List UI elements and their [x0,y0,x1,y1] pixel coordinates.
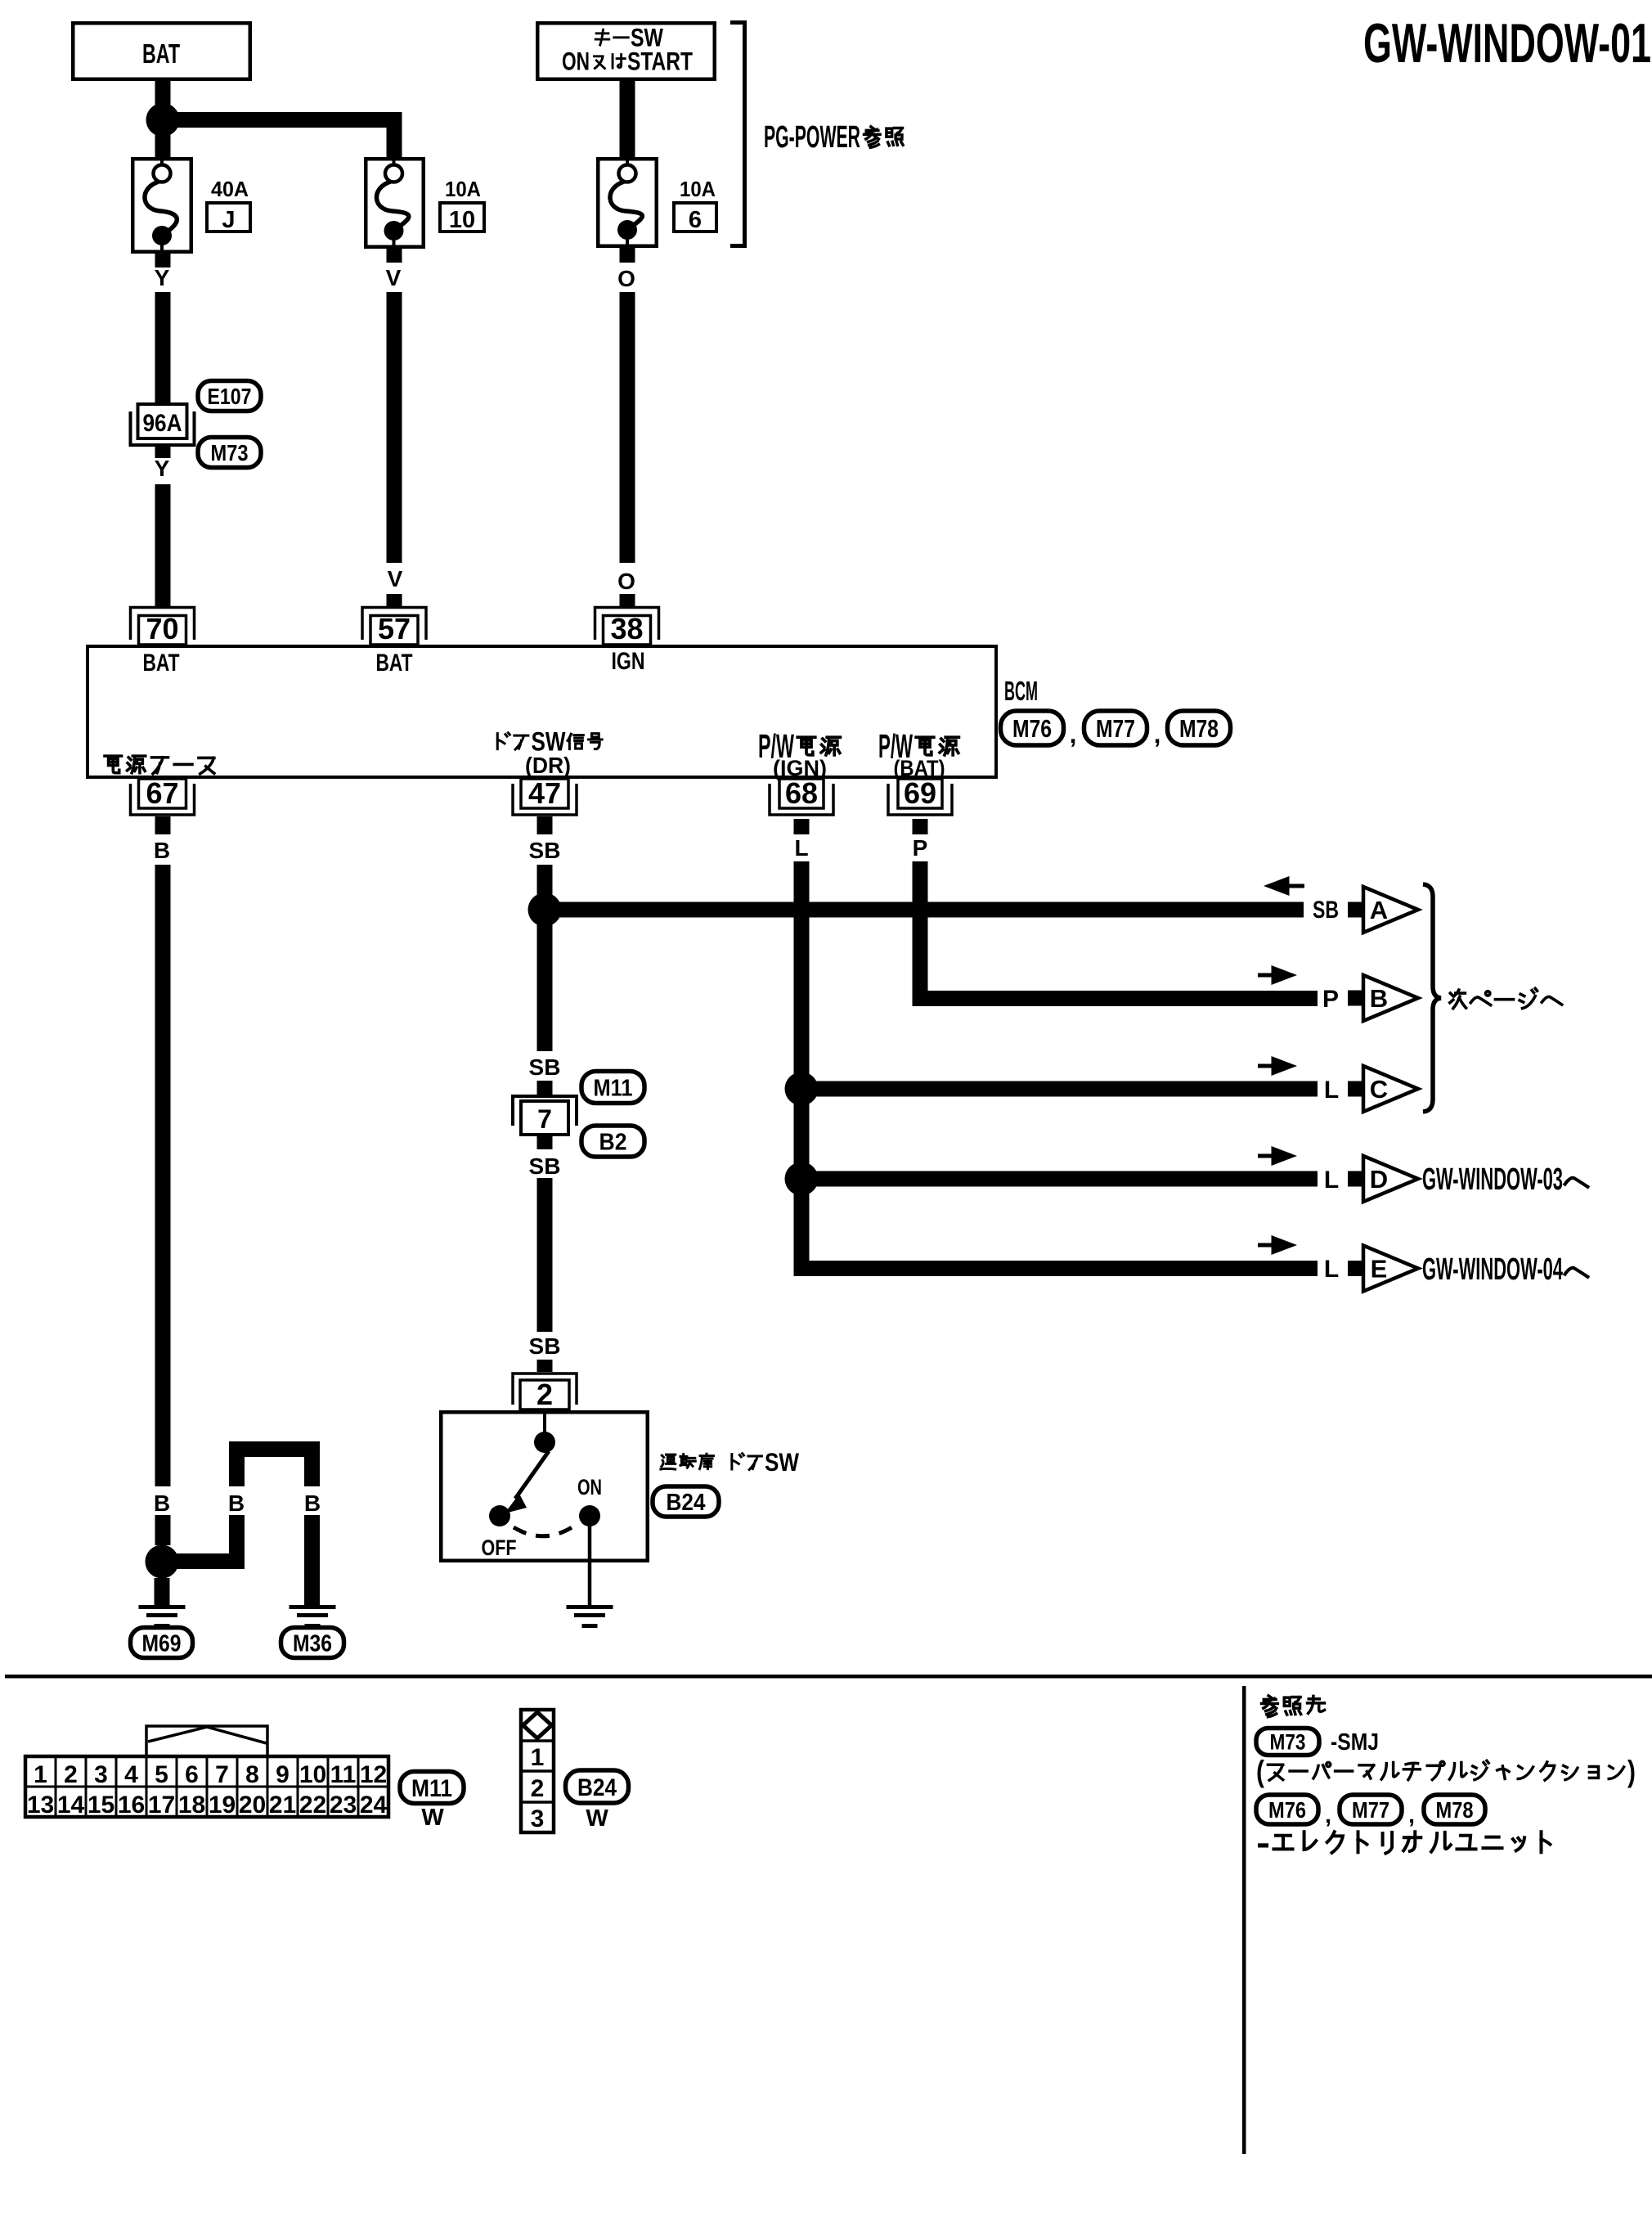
svg-text:2: 2 [64,1761,78,1788]
terminal 67 [131,784,195,815]
door switch box B24 [441,1412,648,1561]
svg-text:21: 21 [269,1792,296,1819]
switch arm arrow [515,1451,549,1499]
svg-text:13: 13 [27,1792,54,1819]
svg-text:10A: 10A [445,177,481,201]
svg-text:B: B [154,838,170,863]
svg-text:(DR): (DR) [525,753,571,778]
terminal 69 [888,784,952,815]
direction arrow row B [1258,973,1274,978]
svg-text:19: 19 [209,1792,236,1819]
terminal 70 [131,608,195,641]
wire Y SMJ to BCM pin 70 [155,484,171,607]
svg-text:Y: Y [155,265,170,290]
svg-text:15: 15 [88,1792,114,1819]
BCM box [88,646,996,777]
svg-text:M69: M69 [142,1630,182,1657]
direction arrow row A [1288,884,1304,888]
brace next page group [1423,884,1441,1112]
svg-text:GW-WINDOW-01: GW-WINDOW-01 [1363,12,1651,74]
svg-text:3: 3 [531,1805,545,1832]
ground M69 [139,1605,186,1609]
terminal 2 door switch [513,1374,577,1405]
terminal 38 [595,608,659,641]
wire L corner to flag E [794,1261,1318,1276]
svg-text:7: 7 [537,1104,552,1134]
contact OFF [489,1505,510,1526]
junction node SB [528,893,562,927]
svg-text:): ) [1627,1754,1636,1788]
svg-text:10: 10 [299,1761,326,1788]
svg-text:SW: SW [765,1447,800,1477]
svg-text:16: 16 [118,1792,145,1819]
svg-text:E: E [1371,1255,1388,1284]
svg-text:-: - [1256,1823,1270,1863]
svg-text:B: B [304,1490,321,1516]
svg-text:6: 6 [689,207,702,233]
wire O fuse 6 to BCM pin 38 [620,248,635,263]
svg-text:-SMJ: -SMJ [1331,1729,1379,1756]
flag E GW-WINDOW-04 [1348,1261,1363,1276]
svg-text:5: 5 [155,1761,168,1788]
wire ON to ground [588,1516,592,1605]
wire V fuse 10 to BCM pin 57 [387,249,402,263]
svg-text:Y: Y [155,456,170,481]
svg-text:BAT: BAT [142,38,180,69]
svg-text:O: O [617,569,635,594]
flag C next page [1348,1081,1363,1097]
svg-text:M73: M73 [1270,1730,1306,1755]
dashed throw arc [514,1525,576,1536]
wire SB BCM 47 down [537,816,553,834]
junction node B [146,1545,179,1579]
svg-text:A: A [1370,896,1388,924]
switch common contact [534,1432,555,1453]
svg-text:18: 18 [178,1792,205,1819]
direction arrow row C [1258,1064,1274,1068]
svg-text:20: 20 [239,1792,266,1819]
svg-text:B2: B2 [599,1129,627,1155]
wire L to flag C [801,1081,1318,1097]
svg-text:M11: M11 [594,1075,633,1101]
svg-text:17: 17 [148,1792,175,1819]
svg-text:BAT: BAT [376,650,413,677]
svg-text:4: 4 [124,1761,138,1788]
svg-text:P: P [913,835,928,861]
wire L to flag D [801,1171,1318,1187]
reference block divider [1242,1686,1246,2154]
svg-text:B24: B24 [577,1774,617,1801]
power source box key SW ON/START [537,23,715,79]
svg-text:M77: M77 [1096,714,1135,743]
svg-text:1: 1 [34,1761,47,1788]
wire bus BAT to fuse 10 [163,112,402,128]
svg-text:L: L [1324,1167,1339,1194]
svg-text:SB: SB [529,1054,561,1080]
terminal 57 [362,608,426,641]
svg-text:O: O [617,266,635,291]
svg-text:3: 3 [94,1761,108,1788]
svg-text:L: L [1324,1077,1339,1104]
fuse 10A 10 [366,159,424,247]
connector face M11 24pin [146,1726,267,1756]
svg-text:(: ( [1256,1754,1264,1788]
direction arrow row D [1258,1154,1274,1158]
wire B branch loop [162,1553,245,1569]
svg-text:67: 67 [146,776,178,810]
svg-text:22: 22 [299,1792,326,1819]
svg-text:GW-WINDOW-03: GW-WINDOW-03 [1422,1162,1563,1197]
junction node BAT [146,103,180,137]
wire P to flag B [913,991,929,1006]
svg-text:57: 57 [378,612,411,645]
wire P BCM 69 down [913,819,928,834]
svg-text:M78: M78 [1436,1797,1474,1823]
flag D GW-WINDOW-03 [1348,1171,1363,1187]
power source box BAT [73,23,250,79]
flag B next page [1348,991,1363,1006]
svg-text:68: 68 [785,776,818,810]
svg-text:M76: M76 [1268,1797,1306,1823]
svg-text:14: 14 [57,1792,85,1819]
junction node L row D [785,1162,819,1196]
svg-text:24: 24 [360,1792,388,1819]
svg-text:47: 47 [528,776,561,810]
svg-text:ON: ON [562,47,590,75]
fuse 10A 6 [598,159,657,246]
connector face B24 3pin [521,1710,554,1832]
svg-text:ON: ON [577,1475,602,1499]
svg-text:96A: 96A [143,410,182,437]
svg-text:L: L [1324,1256,1339,1283]
svg-text:OFF: OFF [482,1535,517,1560]
direction arrow row E [1258,1243,1274,1248]
svg-text:PG-POWER: PG-POWER [764,120,860,155]
svg-text:M36: M36 [293,1630,332,1657]
svg-text:START: START [627,47,693,75]
svg-text:11: 11 [330,1761,357,1788]
svg-text:,: , [1070,720,1077,749]
svg-text:BAT: BAT [143,650,180,677]
svg-text:E107: E107 [208,384,252,409]
svg-text:P: P [1322,986,1339,1013]
svg-text:SB: SB [529,1153,561,1179]
svg-text:M77: M77 [1352,1797,1389,1823]
svg-text:V: V [386,265,402,290]
svg-text:V: V [388,566,403,591]
svg-text:M11: M11 [411,1775,452,1802]
svg-text:BCM: BCM [1004,676,1038,706]
ground M36 [290,1605,336,1609]
flag A next page [1348,902,1363,918]
svg-text:SB: SB [529,838,561,863]
svg-text:2: 2 [536,1378,553,1411]
svg-text:40A: 40A [211,177,249,201]
ground door switch [567,1605,613,1609]
connector 7 M11/B2 [513,1096,577,1126]
svg-text:,: , [1154,720,1161,749]
svg-text:M78: M78 [1179,714,1219,743]
svg-text:L: L [794,835,808,861]
wire L BCM 68 down [794,819,810,834]
junction node L row C [785,1072,819,1106]
svg-text:2: 2 [531,1775,545,1802]
wire BAT to fuse J [155,81,171,157]
contact ON [579,1505,600,1526]
svg-text:12: 12 [360,1761,387,1788]
svg-text:10A: 10A [680,177,716,201]
wire Y fuse J to SMJ [155,254,171,268]
wire SB connector 7 to door switch [537,1178,553,1332]
connector ref M73 SMJ [1256,1729,1319,1756]
terminal 47 [513,784,577,815]
separator line [5,1675,1652,1679]
svg-text:M73: M73 [211,440,249,465]
svg-text:8: 8 [245,1761,259,1788]
svg-text:W: W [586,1805,608,1832]
bracket PG-POWER reference [730,23,745,246]
connector SMJ 96A E107/M73 [131,411,195,445]
connector refs M76 M77 M78 [1256,1795,1318,1824]
svg-text:69: 69 [904,776,936,810]
svg-text:B: B [154,1490,170,1516]
fuse 40A J [132,159,191,252]
wire B BCM 67 down [155,816,171,834]
svg-text:IGN: IGN [612,648,645,675]
svg-text:,: , [1408,1802,1415,1828]
svg-text:M76: M76 [1012,714,1052,743]
svg-text:B24: B24 [667,1490,706,1516]
svg-text:70: 70 [146,612,178,645]
svg-text:J: J [222,207,235,233]
svg-text:D: D [1370,1165,1388,1194]
svg-text:1: 1 [531,1744,545,1771]
wire keySW to fuse 6 [620,81,635,157]
switch label [661,1454,762,1470]
svg-text:9: 9 [276,1761,290,1788]
svg-text:SB: SB [1313,897,1339,924]
terminal 68 [770,784,833,815]
svg-text:7: 7 [215,1761,229,1788]
svg-text:SB: SB [529,1333,561,1359]
svg-text:38: 38 [610,612,643,645]
svg-text:,: , [1325,1802,1331,1828]
svg-text:GW-WINDOW-04: GW-WINDOW-04 [1422,1252,1563,1287]
svg-text:B: B [228,1490,245,1516]
svg-text:10: 10 [449,207,475,233]
wire SB to flag A [545,902,1304,918]
svg-text:C: C [1370,1075,1388,1104]
svg-text:6: 6 [185,1761,199,1788]
svg-text:23: 23 [330,1792,357,1819]
svg-text:W: W [421,1805,444,1831]
svg-text:B: B [1370,984,1388,1013]
